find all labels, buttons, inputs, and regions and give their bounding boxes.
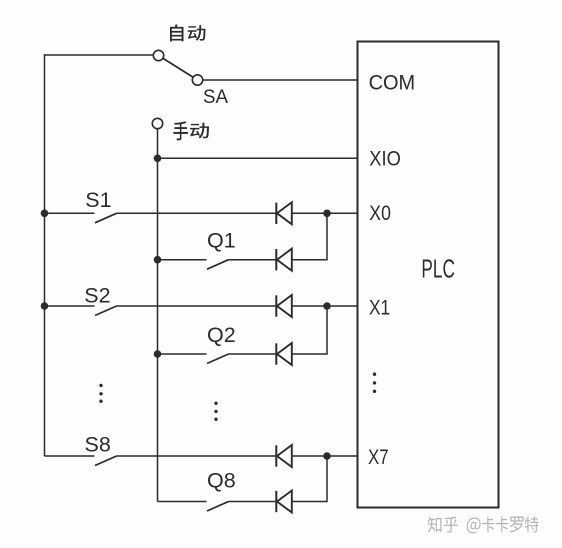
wire S8 to diode: [117, 455, 276, 457]
switch S2 blade: [95, 306, 117, 316]
diode of Q1: [276, 249, 292, 271]
junction dot S2/Q column: [323, 302, 331, 310]
junction dot manual-XIO: [154, 155, 162, 163]
watermark 知乎 @卡卡罗特: [428, 517, 540, 535]
diode triangle (anode): [277, 295, 292, 317]
switch SA contact circle lower: [192, 75, 202, 85]
junction dot manual rail Q2: [154, 350, 162, 358]
junction dot left rail S1: [41, 210, 49, 218]
wire Q1 vertical up to S row: [326, 213, 328, 260]
svg-text:PLC: PLC: [421, 253, 455, 283]
wire Q2 to diode: [229, 353, 276, 355]
svg-text:X0: X0: [369, 201, 391, 225]
switch S8 blade: [95, 456, 117, 466]
switch Q8 blade: [207, 502, 229, 512]
label 自动 (auto): [170, 24, 184, 41]
wire Q8 to diode: [229, 501, 276, 503]
switch Q2 blade: [207, 354, 229, 364]
wire S2 diode to PLC: [292, 305, 358, 307]
svg-text:Q2: Q2: [207, 323, 236, 347]
wire left rail vertical: [44, 54, 46, 456]
wire Q2 left segment: [158, 353, 207, 355]
junction dot manual rail Q1: [154, 256, 162, 264]
wire Q8 left segment: [158, 501, 207, 503]
wire manual rail vertical: [157, 129, 159, 502]
diode of S8: [276, 445, 292, 467]
wire S8 diode to PLC: [292, 455, 358, 457]
wire Q8 diode to junction: [292, 501, 327, 503]
svg-text:S2: S2: [84, 284, 110, 308]
ellipsis dots inside PLC: [373, 373, 376, 393]
diode bar (cathode): [275, 445, 277, 466]
diode of S1: [276, 202, 292, 224]
diode triangle (anode): [277, 445, 292, 467]
wire Q2 vertical up to S row: [326, 306, 328, 355]
diode bar (cathode): [275, 295, 277, 316]
ellipsis dots Q column: [214, 402, 217, 421]
diode triangle (anode): [277, 249, 292, 271]
svg-text:Q8: Q8: [207, 469, 236, 493]
wire Q1 left segment: [158, 259, 207, 261]
diode of S2: [276, 295, 292, 317]
diode of Q8: [276, 491, 292, 513]
wire S1 to diode: [117, 212, 276, 214]
switch S1 blade: [95, 213, 117, 223]
svg-text:S8: S8: [85, 433, 111, 457]
wire COM from SA to PLC: [203, 79, 358, 81]
wire Q8 vertical up to S row: [326, 456, 328, 502]
wire Q1 diode to junction: [292, 259, 327, 261]
wire S2 left segment: [45, 305, 95, 307]
svg-text:XIO: XIO: [369, 146, 401, 170]
diode bar (cathode): [275, 203, 277, 224]
diode bar (cathode): [275, 249, 277, 270]
junction dot S8/Q column: [323, 452, 331, 460]
junction dot left rail S2: [41, 302, 49, 310]
svg-text:S1: S1: [85, 188, 111, 212]
wire S1 diode to PLC: [292, 212, 358, 214]
ellipsis dots left column: [99, 384, 102, 403]
diode bar (cathode): [275, 491, 277, 512]
wire XIO from manual rail to PLC: [158, 157, 358, 159]
diode bar (cathode): [275, 343, 277, 364]
svg-text:COM: COM: [369, 71, 416, 95]
svg-text:Q1: Q1: [207, 229, 236, 253]
diode of Q2: [276, 343, 292, 365]
PLC U1 box: [358, 42, 499, 508]
diode triangle (anode): [277, 202, 292, 224]
manual contact circle: [152, 118, 162, 128]
switch Q1 blade: [207, 260, 229, 270]
svg-text:X7: X7: [368, 445, 389, 469]
wire top from left rail to SA: [44, 54, 154, 56]
junction dot S1/Q column: [323, 210, 331, 218]
wire Q1 to diode: [229, 259, 276, 261]
label 手动 (manual): [173, 121, 188, 140]
wire S2 to diode: [117, 305, 276, 307]
switch SA contact circle auto: [153, 50, 163, 60]
wire S1 left segment: [45, 212, 95, 214]
wire Q2 diode to junction: [292, 353, 327, 355]
svg-text:SA: SA: [203, 86, 228, 108]
switch SA blade: [159, 56, 198, 81]
diode triangle (anode): [277, 491, 292, 513]
wire S8 left segment: [45, 455, 95, 457]
diode triangle (anode): [277, 343, 292, 365]
svg-text:X1: X1: [369, 296, 390, 320]
